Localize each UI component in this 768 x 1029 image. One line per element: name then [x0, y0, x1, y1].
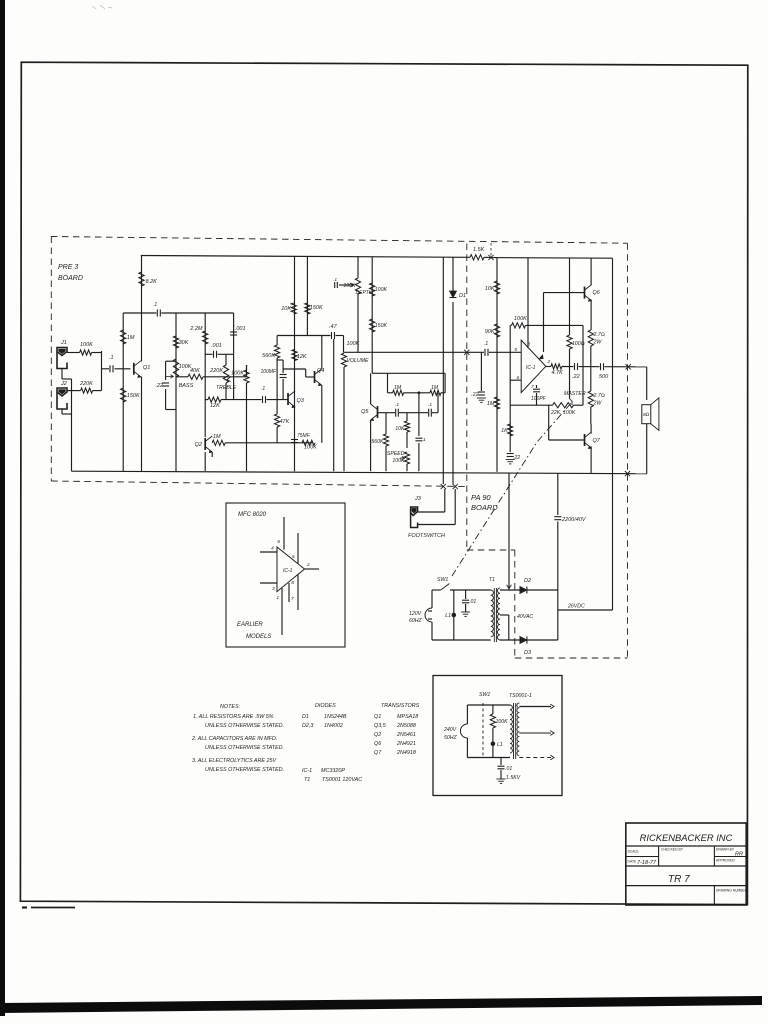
svg-text:2N5088: 2N5088 — [396, 723, 416, 729]
wire osc supply — [371, 256, 373, 373]
pot MASTER 22K,100K — [510, 367, 586, 416]
capacitor 100PF — [536, 385, 538, 388]
switch SW1 (export) — [467, 703, 510, 757]
svg-text:1M: 1M — [127, 335, 135, 341]
op-amp IC-1 — [514, 340, 550, 393]
svg-text:NOTES:: NOTES: — [220, 704, 241, 710]
wire tone feed — [123, 312, 156, 314]
svg-text:TRANSISTORS: TRANSISTORS — [381, 703, 420, 709]
svg-text:2.2M: 2.2M — [189, 326, 203, 332]
scan edge bar bottom — [0, 996, 762, 1013]
svg-text:150K: 150K — [375, 323, 388, 329]
svg-text:150K: 150K — [127, 393, 140, 399]
svg-text:2. ALL CAPACITORS ARE IN MFD.: 2. ALL CAPACITORS ARE IN MFD. — [191, 736, 277, 742]
resistor 1K — [508, 424, 513, 436]
svg-text:100K: 100K — [514, 316, 527, 322]
wire Q5 collector — [370, 373, 372, 404]
resistor 30K — [173, 336, 178, 348]
capacitor .1 input — [109, 365, 111, 372]
svg-text:47K: 47K — [280, 419, 290, 425]
svg-text:2N5461: 2N5461 — [396, 732, 416, 738]
svg-text:4.7K: 4.7K — [552, 370, 564, 376]
svg-text:DATE: DATE — [628, 860, 638, 864]
capacitor .1 (tone feed) — [156, 310, 158, 317]
wire pin3 to rail — [527, 258, 529, 348]
capacitor .01 mains — [465, 590, 467, 599]
svg-text:.1: .1 — [422, 437, 426, 443]
PRE 3 board dashed outline — [51, 237, 628, 487]
resistor 8.2K — [139, 272, 144, 286]
wire .001 riser — [233, 313, 235, 400]
svg-text:560K: 560K — [262, 353, 275, 359]
capacitor 100MF — [277, 359, 283, 361]
wire .001 stub — [205, 353, 212, 355]
pencil smudge top — [92, 5, 112, 9]
plug 120V — [409, 590, 432, 640]
svg-text:MC3320P: MC3320P — [321, 768, 345, 774]
resistor 4.7K — [546, 366, 551, 368]
resistor 40K — [176, 376, 188, 378]
notes text — [191, 704, 284, 773]
title block — [626, 823, 748, 905]
transistor Q2 — [195, 436, 213, 453]
transformer TS0001-1 — [510, 703, 519, 759]
svg-text:90K: 90K — [485, 329, 495, 335]
svg-text:2.7Ω: 2.7Ω — [593, 332, 605, 338]
wire export bottom — [467, 757, 510, 759]
svg-text:40K: 40K — [190, 368, 200, 374]
svg-text:220K: 220K — [209, 368, 223, 374]
resistor 100K (J1 input) — [67, 352, 80, 354]
svg-text:100MF: 100MF — [260, 369, 277, 375]
svg-text:Q7: Q7 — [374, 750, 382, 756]
svg-text:Q1: Q1 — [143, 365, 150, 371]
svg-text:1N5244B: 1N5244B — [324, 714, 347, 720]
jack J1 — [57, 340, 67, 369]
svg-text:Q7: Q7 — [593, 438, 601, 444]
svg-text:150K: 150K — [310, 305, 323, 311]
lamp L1 (export) — [491, 742, 496, 747]
svg-text:SPEED: SPEED — [387, 451, 405, 457]
svg-text:10K: 10K — [281, 306, 291, 312]
svg-text:J2: J2 — [60, 381, 67, 387]
wire PRE ground to CT — [508, 473, 510, 590]
svg-text:10K: 10K — [485, 286, 495, 292]
svg-text:1. ALL RESISTORS ARE .5W 5%: 1. ALL RESISTORS ARE .5W 5% — [193, 714, 274, 720]
resistor 2.7ohm 2W (upper) — [588, 330, 593, 346]
wire mains bottom — [432, 639, 491, 641]
svg-text:T1: T1 — [489, 577, 495, 583]
svg-text:.1: .1 — [109, 355, 114, 361]
svg-text:12K: 12K — [210, 403, 220, 409]
wire V+ tap — [569, 258, 571, 325]
resistor 10K (osc) — [406, 413, 408, 421]
board edge crossing signal — [464, 350, 469, 355]
svg-text:Q3,5: Q3,5 — [374, 723, 387, 729]
svg-text:BOARD: BOARD — [58, 275, 83, 282]
svg-text:.22: .22 — [513, 455, 520, 461]
speaker 8ohm — [642, 398, 659, 431]
resistor 2.2M — [203, 331, 208, 344]
svg-text:MFC 8020: MFC 8020 — [238, 512, 267, 518]
wire Q6 collector — [590, 258, 592, 285]
diode D3 — [500, 639, 520, 641]
svg-text:Q6: Q6 — [593, 290, 601, 296]
resistor 1M (pa) — [494, 397, 499, 409]
svg-text:2: 2 — [306, 562, 310, 568]
plug 240V — [443, 705, 467, 758]
svg-text:220K: 220K — [79, 381, 93, 387]
wire Q3 branch — [294, 256, 296, 471]
svg-text:100K: 100K — [375, 287, 388, 293]
svg-text:5: 5 — [292, 554, 295, 560]
svg-text:.01: .01 — [505, 766, 512, 772]
wire 10K/90K branch — [496, 258, 498, 472]
capacitor .01 export — [500, 758, 502, 766]
resistor 2.7ohm 2W (lower) — [590, 367, 592, 391]
capacitor .22 output — [574, 363, 576, 370]
svg-text:1.5KV: 1.5KV — [506, 775, 521, 781]
svg-text:2N4918: 2N4918 — [396, 750, 416, 756]
svg-text:IC-1: IC-1 — [526, 365, 536, 371]
wire 12K feed — [205, 399, 208, 401]
svg-text:Q6: Q6 — [374, 741, 381, 747]
wire speaker return — [646, 424, 648, 474]
wire osc box top — [372, 372, 445, 374]
wire Q2 out — [211, 452, 213, 457]
svg-text:L1: L1 — [497, 742, 503, 748]
svg-text:8.2K: 8.2K — [146, 279, 158, 285]
svg-text:PRE 3: PRE 3 — [58, 264, 78, 271]
wire Q1 emitter — [141, 377, 143, 472]
wire 26VDC — [558, 609, 613, 611]
svg-text:6: 6 — [277, 539, 280, 545]
svg-text:3: 3 — [272, 586, 275, 592]
scan edge bar left — [0, 0, 5, 1016]
transistor Q3 — [288, 391, 305, 408]
svg-text:UNLESS OTHERWISE STATED.: UNLESS OTHERWISE STATED. — [205, 745, 284, 751]
svg-text:10K: 10K — [395, 426, 405, 432]
svg-text:IC-1: IC-1 — [283, 568, 293, 574]
svg-text:2N4921: 2N4921 — [396, 741, 416, 747]
svg-text:.001: .001 — [235, 326, 246, 332]
capacitor 500 output — [600, 363, 602, 370]
resistor 100ohm — [569, 325, 571, 335]
op-amp IC-1 (earlier) — [260, 517, 319, 635]
wire pin4 supply — [543, 293, 545, 352]
svg-text:L1: L1 — [445, 613, 451, 619]
svg-text:22K, 100K: 22K, 100K — [550, 410, 576, 416]
switch SW1 — [432, 577, 491, 590]
svg-text:Q2: Q2 — [374, 732, 381, 738]
svg-text:2.7Ω: 2.7Ω — [593, 393, 605, 399]
pot 220K TREBLE — [209, 354, 237, 399]
svg-text:100K: 100K — [343, 283, 356, 289]
svg-text:8: 8 — [291, 580, 294, 586]
svg-text:240V: 240V — [443, 727, 457, 733]
svg-text:DRAWING NUMBER: DRAWING NUMBER — [716, 889, 748, 893]
export secondary taps — [519, 706, 551, 708]
svg-text:2200/40V: 2200/40V — [561, 517, 587, 523]
resistor 100K (treble out) — [246, 365, 248, 370]
wire Q7 collector/emitter — [590, 424, 592, 434]
resistor 100K (Q3 emitter) — [302, 440, 315, 445]
pot 100K VOLUME — [341, 336, 369, 472]
resistor 150K (osc) — [370, 319, 375, 332]
resistor 1M (osc A) — [388, 392, 393, 394]
transistor Q7 — [585, 432, 601, 449]
svg-text:T1: T1 — [304, 777, 310, 783]
svg-text:8Ω: 8Ω — [643, 412, 650, 418]
wire .47 return — [333, 339, 335, 471]
wire output to speaker — [626, 364, 631, 369]
resistor 1M (osc B) — [430, 390, 441, 395]
svg-text:.1: .1 — [153, 302, 157, 308]
switch linkage dash-dot diagonal — [452, 402, 572, 576]
svg-text:.1: .1 — [261, 386, 265, 392]
wire bass branch — [175, 313, 177, 471]
svg-text:UNLESS OTHERWISE STATED.: UNLESS OTHERWISE STATED. — [205, 767, 284, 773]
svg-text:J3: J3 — [414, 496, 422, 502]
capacitor .22 to ground (input) — [480, 352, 482, 391]
wire 150K branch — [306, 256, 308, 335]
resistor 560K (osc) — [385, 413, 387, 434]
svg-text:Q1: Q1 — [374, 714, 381, 720]
svg-text:APPROVED: APPROVED — [716, 859, 735, 863]
svg-text:100K: 100K — [304, 445, 317, 451]
svg-text:.001: .001 — [211, 343, 222, 349]
transistor Q6 — [585, 285, 601, 302]
MFC 8020 earlier models box — [226, 503, 345, 647]
svg-text:.22: .22 — [155, 383, 163, 389]
svg-text:120V: 120V — [409, 611, 422, 617]
capacitor .1 (osc b) — [428, 409, 430, 417]
svg-text:TS0001 120VAC: TS0001 120VAC — [322, 777, 362, 783]
svg-text:1M: 1M — [487, 401, 495, 407]
svg-text:1K: 1K — [501, 428, 508, 434]
svg-text:.47: .47 — [329, 324, 338, 330]
capacitor .1 coupling — [262, 396, 264, 403]
wire Q6 emitter chain — [590, 300, 592, 331]
svg-text:D1: D1 — [302, 714, 309, 720]
svg-text:.1: .1 — [333, 277, 337, 283]
resistor 10K — [291, 303, 296, 314]
microfilm credit text — [22, 906, 27, 908]
resistor 560K — [276, 336, 278, 346]
jack J3 footswitch — [411, 489, 456, 528]
transistor Q5 — [361, 404, 377, 421]
wire ground bottom rail — [72, 471, 647, 474]
svg-text:30K: 30K — [179, 340, 189, 346]
resistor 1M (Q2) — [211, 442, 213, 444]
wire Q7 base — [548, 405, 550, 440]
wire Q4 collector/emitter — [321, 336, 323, 370]
transistors parts list — [374, 703, 420, 756]
capacitor .1 coupling (pa) — [484, 349, 486, 356]
wire jack sleeve ground — [61, 369, 63, 380]
board edge arrows 1.5K rail — [488, 255, 493, 260]
svg-text:J1: J1 — [60, 340, 67, 346]
svg-text:5: 5 — [514, 347, 517, 353]
svg-text:100K: 100K — [80, 342, 93, 348]
capacitor .1 (osc c) — [418, 393, 420, 436]
svg-text:1N4002: 1N4002 — [324, 723, 343, 729]
wire footswitch line A — [442, 257, 444, 484]
diodes parts list — [302, 703, 362, 783]
svg-text:MPSA18: MPSA18 — [397, 714, 418, 720]
transistor Q4 — [315, 368, 325, 386]
svg-text:DRAWN BY: DRAWN BY — [716, 848, 735, 852]
resistor 150K — [305, 303, 310, 314]
svg-text:TR 7: TR 7 — [668, 874, 690, 885]
svg-text:RICKENBACKER INC: RICKENBACKER INC — [640, 832, 733, 843]
transistor Q1 — [134, 361, 151, 378]
pot 100K SPEED — [387, 451, 410, 471]
capacitor .001 — [213, 351, 215, 358]
ground (export) — [497, 778, 506, 780]
wire Q1 collector — [141, 256, 143, 362]
svg-text:MODELS: MODELS — [246, 634, 271, 640]
resistor 1.5K (supply) — [468, 256, 470, 258]
svg-text:2W: 2W — [593, 340, 603, 346]
svg-text:VOLUME: VOLUME — [347, 358, 369, 364]
svg-text:TS0001-1: TS0001-1 — [509, 693, 532, 699]
svg-text:1M: 1M — [431, 385, 439, 391]
svg-text:60HZ: 60HZ — [409, 618, 423, 624]
pot 100K DEPTH — [333, 256, 373, 352]
svg-text:2W: 2W — [593, 401, 603, 407]
wire treble junction — [226, 376, 247, 378]
svg-text:Q5: Q5 — [361, 409, 369, 415]
wire Q4 base — [283, 368, 306, 370]
border frame — [20, 62, 747, 904]
svg-text:7: 7 — [291, 596, 294, 602]
capacitor .22 to ground (pa) — [507, 453, 514, 455]
svg-text:100K: 100K — [496, 719, 509, 725]
wire interstage — [277, 335, 330, 337]
wire bias divider — [122, 313, 124, 471]
svg-text:7-18-77: 7-18-77 — [637, 860, 657, 866]
svg-text:.1: .1 — [395, 402, 399, 408]
wire pin6 — [510, 379, 521, 381]
resistor 1M — [121, 330, 126, 344]
svg-text:RR: RR — [735, 852, 743, 858]
wire secondary CT — [500, 614, 509, 616]
svg-text:.22: .22 — [471, 392, 478, 398]
wire feedback top — [510, 324, 511, 326]
svg-text:UNLESS OTHERWISE STATED.: UNLESS OTHERWISE STATED. — [205, 723, 284, 729]
capacitor 2200/40V — [557, 473, 559, 515]
resistor 47K — [276, 399, 278, 414]
diode D2 — [500, 589, 520, 591]
resistor 10K (pa) — [494, 281, 499, 294]
svg-text:SW1: SW1 — [479, 692, 490, 698]
svg-text:PA 90: PA 90 — [471, 493, 491, 502]
svg-text:IC-1: IC-1 — [302, 768, 312, 774]
svg-text:D2,3: D2,3 — [302, 723, 313, 729]
resistor 150K — [121, 388, 126, 402]
resistor 220K (J2 input) — [67, 390, 81, 392]
svg-text:Q3: Q3 — [297, 398, 305, 404]
lamp L1 — [453, 590, 455, 640]
svg-text:1: 1 — [276, 595, 279, 601]
wire 1K branch — [509, 325, 511, 452]
capacitor .22 bass — [155, 361, 176, 409]
svg-text:CHECKED BY: CHECKED BY — [661, 848, 684, 852]
capacitor .1 (osc a) — [395, 409, 397, 417]
capacitor .47 — [331, 332, 333, 339]
svg-text:50HZ: 50HZ — [444, 735, 458, 741]
wire 2.2M branch — [204, 313, 206, 437]
svg-text:1M: 1M — [394, 385, 402, 391]
wire signal to amp — [344, 351, 485, 353]
svg-text:40VAC: 40VAC — [517, 614, 533, 620]
svg-text:D1: D1 — [459, 293, 466, 299]
svg-text:BOARD: BOARD — [471, 503, 498, 512]
resistor 90K — [494, 324, 499, 337]
svg-text:.22: .22 — [572, 374, 580, 380]
wire jack mix node — [101, 351, 103, 391]
wire feedback right side — [582, 325, 584, 405]
svg-text:SCALE: SCALE — [628, 850, 640, 854]
wire +26V top rail — [141, 256, 613, 259]
svg-text:4: 4 — [271, 546, 274, 552]
svg-text:D3: D3 — [524, 650, 532, 656]
svg-text:.01: .01 — [469, 599, 476, 605]
svg-text:.1: .1 — [428, 402, 432, 408]
svg-text:100K: 100K — [231, 371, 244, 377]
board edge crossing ground rail — [625, 471, 630, 476]
svg-text:D2: D2 — [524, 578, 531, 584]
svg-text:BASS: BASS — [179, 383, 194, 389]
svg-text:DIODES: DIODES — [315, 703, 336, 709]
svg-text:100PF: 100PF — [531, 396, 547, 402]
wire Q5 base — [378, 412, 396, 414]
svg-text:75MF: 75MF — [297, 433, 311, 439]
diode D1 zener — [450, 291, 457, 298]
resistor 100K (osc) — [370, 283, 375, 296]
resistor 100K (export) — [492, 705, 494, 714]
export 240V option box — [433, 676, 562, 796]
wire 26VDC riser — [612, 258, 614, 610]
wire Q5 emitter — [370, 420, 372, 471]
svg-text:26VDC: 26VDC — [567, 604, 585, 610]
svg-text:.1: .1 — [484, 341, 488, 347]
svg-text:SW1: SW1 — [437, 577, 448, 583]
svg-text:12K: 12K — [297, 354, 307, 360]
svg-text:Q2: Q2 — [195, 442, 202, 448]
wire footswitch line B (D1) — [452, 257, 454, 291]
svg-text:FOOTSWITCH: FOOTSWITCH — [408, 533, 445, 539]
svg-text:1.5K: 1.5K — [473, 247, 485, 253]
svg-text:1M: 1M — [213, 434, 221, 440]
svg-text:EARLIER: EARLIER — [237, 622, 263, 628]
svg-text:Q4: Q4 — [317, 368, 324, 374]
svg-text:2: 2 — [547, 359, 551, 365]
capacitor 75MF — [291, 439, 298, 441]
PA 90 board dashed outline — [467, 243, 628, 658]
resistor 12K (Q3 collector) — [292, 350, 297, 361]
svg-text:560K: 560K — [371, 439, 384, 445]
pot 100K BASS — [166, 359, 194, 389]
svg-text:3. ALL ELECTROLYTICS ARE 25V: 3. ALL ELECTROLYTICS ARE 25V — [192, 758, 277, 764]
jack J2 — [57, 381, 67, 409]
transformer T1 — [489, 577, 500, 642]
capacitor .001 (second) — [230, 331, 237, 333]
svg-text:500: 500 — [599, 374, 609, 380]
